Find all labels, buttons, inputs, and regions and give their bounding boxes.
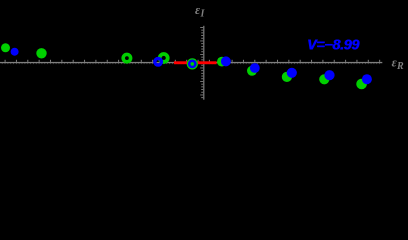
origin bullseye marker: green core: [191, 62, 195, 66]
annotation text V=-8.99: [307, 38, 360, 54]
x-axis major tick marks: [5, 60, 381, 62]
axis label epsilon_R (right): [392, 55, 404, 72]
red resonance segment on real axis: [174, 61, 217, 64]
origin bullseye marker: blue middle: [188, 60, 197, 69]
y-axis line (epsilon_I axis): [203, 26, 204, 100]
resonance pair 1: green dot: [217, 57, 227, 67]
resonance pair 2: blue dot: [250, 63, 260, 73]
axis label epsilon_I (top): [195, 3, 205, 20]
x-axis minor tick marks: [2, 62, 380, 65]
resonance pair 1: blue dot: [221, 56, 231, 66]
green eigenvalue dot 1 (far left): [1, 43, 10, 52]
green eigenvalue ring 2: [160, 54, 168, 62]
y-axis tick marks: [200, 27, 203, 98]
x-axis line (epsilon_R axis): [0, 62, 382, 63]
blue eigenvalue ring (overlapping green ring 2): [155, 59, 162, 66]
resonance pair 4: blue dot: [324, 70, 334, 80]
resonance pair 4: green dot: [319, 74, 329, 84]
resonance pair 3: blue dot: [287, 68, 297, 78]
resonance pair 5: blue dot: [362, 74, 372, 84]
blue eigenvalue dot 1 (far left): [11, 48, 19, 56]
green eigenvalue dot 2: [36, 48, 46, 58]
green eigenvalue ring 1: [123, 54, 130, 61]
origin bullseye marker: green outer: [187, 58, 198, 69]
resonance pair 5: green dot: [356, 79, 367, 90]
resonance pair 2: green dot: [247, 66, 257, 76]
svg-text:V=−8.99: V=−8.99: [308, 38, 360, 54]
resonance pair 3: green dot: [282, 72, 292, 82]
